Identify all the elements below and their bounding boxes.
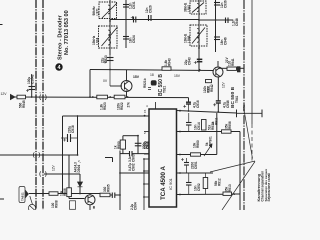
svg-text:R921b: R921b (143, 78, 147, 88)
svg-text:No. 77013 053 00: No. 77013 053 00 (64, 10, 70, 55)
svg-text:C903: C903 (131, 154, 135, 162)
svg-text:C948: C948 (235, 18, 239, 26)
svg-text:C924: C924 (132, 35, 136, 43)
svg-text:R950: R950 (117, 141, 121, 149)
svg-text:L924: L924 (95, 38, 99, 45)
svg-text:15,1b: 15,1b (242, 104, 246, 111)
svg-text:R906: R906 (63, 188, 67, 196)
svg-text:R923: R923 (103, 102, 107, 110)
svg-text:12V: 12V (1, 92, 8, 96)
svg-text:C902: C902 (132, 163, 136, 171)
svg-text:C1041: C1041 (31, 74, 35, 84)
svg-text:C916: C916 (196, 100, 200, 108)
svg-text:T921: T921 (163, 86, 167, 93)
svg-text:C952: C952 (197, 183, 201, 191)
svg-text:R905: R905 (107, 184, 111, 192)
svg-text:C943: C943 (188, 57, 192, 65)
svg-text:R911: R911 (214, 117, 218, 125)
svg-text:C914: C914 (197, 122, 201, 130)
svg-text:15V: 15V (133, 75, 140, 79)
svg-text:27k: 27k (127, 102, 131, 108)
svg-text:Stereo - Decoder: Stereo - Decoder (58, 14, 64, 60)
svg-text:C918: C918 (71, 125, 75, 133)
svg-text:L946: L946 (187, 36, 191, 43)
svg-text:R960: R960 (196, 140, 200, 148)
svg-text:18: 18 (150, 73, 154, 77)
svg-text:R941: R941 (231, 58, 235, 66)
svg-text:L941: L941 (187, 5, 191, 12)
svg-text:TA911: TA911 (21, 192, 25, 201)
svg-text:C946: C946 (223, 37, 227, 45)
svg-text:C926: C926 (149, 5, 153, 13)
svg-text:TCA 4500 A: TCA 4500 A (160, 166, 167, 200)
svg-text:21V: 21V (225, 56, 229, 63)
svg-text:R956: R956 (228, 121, 232, 129)
svg-text:15: 15 (143, 109, 147, 113)
svg-text:C936: C936 (223, 0, 227, 8)
svg-text:IC 901: IC 901 (168, 177, 173, 190)
svg-text:RP901: RP901 (209, 136, 213, 146)
svg-text:R943: R943 (168, 58, 172, 66)
svg-text:T941: T941 (235, 96, 239, 103)
svg-text:12V: 12V (52, 164, 56, 171)
svg-text:C912: C912 (146, 141, 150, 149)
svg-text:15V: 15V (174, 74, 181, 78)
svg-text:C931: C931 (132, 1, 136, 9)
svg-text:R913: R913 (228, 184, 232, 192)
svg-text:C951: C951 (194, 161, 198, 169)
svg-text:D904: D904 (77, 165, 81, 173)
svg-text:L971: L971 (95, 8, 99, 15)
svg-text:R908: R908 (55, 200, 59, 208)
svg-text:12V: 12V (222, 81, 226, 88)
svg-text:C946: C946 (226, 100, 230, 108)
svg-text:C904: C904 (134, 202, 138, 210)
svg-text:Separazione canali: Separazione canali (267, 173, 271, 202)
svg-text:R922: R922 (120, 102, 124, 110)
svg-text:0V: 0V (103, 79, 108, 83)
svg-text:C923: C923 (104, 55, 108, 63)
svg-text:R942: R942 (210, 84, 214, 92)
svg-text:R945: R945 (22, 100, 26, 108)
svg-text:R912: R912 (218, 178, 222, 186)
